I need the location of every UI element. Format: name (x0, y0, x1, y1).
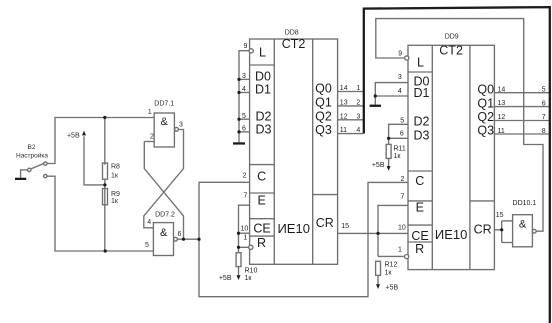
wire DD9 CR output to DD10.1 inputs (494, 229, 501, 231)
svg-text:7: 7 (542, 114, 546, 121)
DD8 CE/R cell line (250, 235, 275, 237)
svg-text:4: 4 (398, 88, 402, 95)
junction node DD7.2 output / cross wire (182, 238, 185, 241)
resistor R10 body (236, 253, 241, 267)
svg-text:3: 3 (242, 73, 246, 80)
svg-text:1к: 1к (111, 173, 119, 180)
junction node DD8 D1 (237, 91, 240, 94)
svg-text:3: 3 (179, 122, 183, 129)
DD8 inner divider right (312, 39, 314, 264)
DD9 Q2 output wire (net 7) (494, 120, 549, 122)
svg-text:D2: D2 (414, 114, 430, 128)
svg-text:CE: CE (253, 221, 270, 235)
svg-text:CR: CR (474, 222, 492, 236)
svg-text:3: 3 (356, 113, 360, 120)
counter DD9 body (408, 45, 494, 269)
DD10.1 output bubble (532, 229, 536, 233)
svg-text:DD8: DD8 (285, 29, 299, 36)
svg-text:В2: В2 (28, 144, 36, 151)
junction node bottom rail / R9 (104, 249, 107, 252)
svg-text:+5В: +5В (67, 132, 80, 139)
svg-text:2: 2 (356, 99, 360, 106)
DD9 R pin wire (378, 255, 404, 257)
svg-text:L: L (417, 55, 424, 69)
svg-text:7: 7 (244, 192, 248, 199)
DD8 D1 pin wire (239, 92, 250, 94)
svg-text:2: 2 (150, 134, 154, 141)
op-amp DD7.1 NAND gate body (154, 113, 174, 147)
switch B2 (Настройка) lever (31, 163, 44, 169)
svg-text:Q2: Q2 (477, 110, 494, 124)
+5V arrowhead down (R12) (376, 284, 380, 289)
DD9 Q0 output wire (net 5) (494, 92, 549, 94)
ground bar DD9 D0/D1 (370, 105, 381, 107)
junction node DD9 D1 ground (374, 94, 377, 97)
svg-text:13: 13 (498, 100, 506, 107)
junction node DD8 D3 (237, 130, 240, 133)
wire R8 to R9 and bottom rail (104, 180, 106, 251)
svg-text:&: & (161, 116, 169, 128)
+5V arrowhead down (R10) (237, 275, 241, 280)
svg-text:D2: D2 (256, 109, 272, 123)
switch B2 pole contact circle (28, 168, 31, 171)
DD9 Q3 output wire (net 8) (494, 133, 549, 135)
svg-text:10: 10 (398, 224, 406, 231)
DD8 L cell line (250, 64, 275, 66)
svg-text:E: E (258, 193, 266, 207)
R11 wire to +5V arrow (388, 158, 390, 167)
svg-text:10: 10 (241, 225, 249, 232)
svg-text:DD7.1: DD7.1 (154, 101, 174, 108)
svg-text:E: E (416, 200, 424, 214)
wire DD7.1 output to DD7.2 pin 4 (cross coupling) (144, 130, 184, 228)
svg-text:14: 14 (340, 85, 348, 92)
junction node DD9 CR / DD10.1 (500, 228, 503, 231)
DD9 D3 pin wire (389, 137, 408, 139)
svg-text:D1: D1 (414, 86, 430, 100)
wire DD8 CR output to DD9 CE input (338, 232, 408, 234)
DD8 inner divider left (273, 39, 275, 264)
svg-text:R9: R9 (111, 191, 120, 198)
DD8 Q/CR cell line (313, 194, 338, 196)
svg-text:15: 15 (496, 212, 504, 219)
switch B2 lower contact circle (44, 174, 47, 177)
svg-text:3: 3 (398, 74, 402, 81)
svg-text:15: 15 (341, 223, 349, 230)
DD7.1 output bubble (175, 127, 179, 131)
svg-text:6: 6 (177, 231, 181, 238)
resistor R12 body (376, 261, 381, 275)
resistor R11 body (386, 144, 391, 158)
wire DD7.2 output to node (177, 238, 199, 240)
DD10.1 input stub upper (502, 220, 513, 222)
junction node top rail / R8 (103, 116, 106, 119)
svg-text:11: 11 (498, 128, 505, 135)
svg-text:5: 5 (400, 118, 404, 125)
resistor R8 body (103, 163, 108, 179)
DD9 C cell top line (408, 170, 432, 172)
DD9 CE/R cell line (408, 241, 432, 243)
wire node around bottom to DD9 C input (199, 182, 408, 296)
svg-text:CE: CE (411, 229, 428, 243)
R10 wire to +5V arrow (238, 267, 240, 277)
wire upper contact to top rail (47, 118, 154, 164)
junction node DD8 R (237, 246, 240, 249)
svg-text:4: 4 (147, 219, 151, 226)
DD9 D0 pin wire (375, 83, 408, 105)
DD9 E pin wire and pull vertical (378, 205, 408, 256)
svg-text:9: 9 (244, 43, 248, 50)
svg-text:Q3: Q3 (477, 124, 494, 138)
DD10.1 input stub lower (502, 242, 513, 244)
svg-text:12: 12 (498, 114, 506, 121)
svg-text:5: 5 (542, 86, 546, 93)
counter DD8 body (250, 39, 338, 264)
svg-text:L: L (259, 46, 266, 60)
wire node to DD8 C input (199, 182, 250, 239)
svg-text:2: 2 (243, 173, 247, 180)
svg-text:ИЕ10: ИЕ10 (277, 221, 309, 236)
DD9 D2 pin wire (389, 124, 408, 144)
DD9 D1 pin wire (375, 95, 408, 97)
svg-text:C: C (415, 174, 424, 188)
svg-text:DD7.2: DD7.2 (155, 212, 175, 219)
resistor R9 body (103, 189, 108, 205)
svg-text:D3: D3 (414, 128, 430, 142)
svg-text:4: 4 (356, 127, 360, 134)
svg-text:5: 5 (145, 242, 149, 249)
wire DD10.1 output to DD9 L input (load loop) (376, 19, 543, 232)
svg-text:7: 7 (401, 194, 405, 201)
svg-text:6: 6 (242, 126, 246, 133)
svg-text:4: 4 (242, 86, 246, 93)
DD8 Q1 output wire (net 2) (338, 105, 363, 107)
svg-text:R: R (257, 236, 266, 250)
svg-text:&: & (160, 227, 168, 239)
DD8 D0 pin wire (239, 78, 250, 80)
svg-text:D1: D1 (255, 82, 271, 96)
svg-text:R12: R12 (385, 262, 398, 269)
thick bus wire from DD8 outputs around top to right edge (364, 7, 550, 323)
svg-text:R10: R10 (245, 268, 258, 275)
svg-text:1: 1 (148, 109, 152, 116)
svg-text:+5В: +5В (386, 285, 399, 292)
svg-text:+5В: +5В (372, 162, 385, 169)
DD9 inner divider left (431, 45, 433, 269)
DD8 C/E cell line (250, 192, 275, 194)
svg-text:CT2: CT2 (282, 37, 306, 51)
svg-text:D0: D0 (255, 69, 271, 83)
wire switch pole to ground (21, 170, 28, 178)
svg-text:5: 5 (242, 113, 246, 120)
svg-text:8: 8 (542, 128, 546, 135)
svg-text:R: R (415, 242, 424, 256)
junction node DD8 CE (237, 232, 240, 235)
ground bar DD8 inputs (233, 142, 245, 144)
svg-text:6: 6 (542, 100, 546, 107)
wire DD7.1 pin 2 to DD7.2 output (cross coupling) (144, 142, 183, 240)
DD8 R pin bubble (249, 245, 253, 249)
DD7.1 pin 2 input wire (144, 141, 154, 143)
junction node DD7.2 output / clock link (197, 238, 200, 241)
DD8 ground bus left (239, 51, 249, 143)
svg-text:6: 6 (400, 131, 404, 138)
junction node DD9 D3 / R11 (387, 137, 390, 140)
ground bar at switch B2 (15, 178, 26, 180)
DD8 C cell top line (250, 164, 275, 166)
svg-text:1: 1 (356, 85, 360, 92)
+5V arrowhead up (R8/R9 node) (82, 131, 86, 136)
svg-text:CT2: CT2 (439, 43, 463, 57)
op-amp DD7.2 NAND gate body (153, 223, 173, 256)
svg-text:13: 13 (340, 99, 348, 106)
svg-text:Q1: Q1 (315, 95, 332, 109)
svg-text:14: 14 (498, 86, 506, 93)
svg-text:DD9: DD9 (445, 34, 459, 41)
svg-text:11: 11 (340, 127, 347, 134)
svg-text:Q1: Q1 (477, 96, 494, 110)
svg-text:1: 1 (243, 235, 247, 242)
DD7.2 output bubble (174, 237, 178, 241)
svg-text:9: 9 (398, 50, 402, 57)
DD8 CE pin wire (239, 232, 250, 234)
DD8 Q3 output wire (net 4) (338, 133, 363, 135)
svg-text:Q0: Q0 (477, 82, 494, 96)
svg-text:1к: 1к (394, 153, 402, 160)
svg-text:ИЕ10: ИЕ10 (435, 227, 467, 242)
DD8 E pin wire and pull-up vertical (239, 205, 250, 253)
svg-text:Q2: Q2 (315, 109, 332, 123)
DD9 R pin bubble (405, 255, 409, 259)
svg-text:R8: R8 (111, 163, 120, 170)
wire +5V arrow no.1 to R8/R9 node (84, 136, 105, 185)
DD10.1 input tie vertical (501, 221, 503, 243)
svg-text:1к: 1к (245, 275, 253, 282)
DD9 Q/CR cell line (470, 200, 495, 202)
DD8 D3 pin wire (239, 131, 250, 133)
DD8 D2 pin wire (239, 118, 250, 120)
DD8 R pin wire (239, 246, 249, 248)
svg-text:CR: CR (316, 216, 334, 230)
svg-text:1к: 1к (111, 198, 119, 205)
DD9 L pin bubble (405, 56, 409, 60)
DD8 Q2 output wire (net 3) (338, 119, 363, 121)
junction node DD8 D2 (237, 118, 240, 121)
DD9 inner divider right (469, 45, 471, 269)
DD9 L cell line (408, 71, 432, 73)
svg-text:12: 12 (340, 113, 348, 120)
svg-text:R11: R11 (394, 145, 406, 152)
svg-text:+5В: +5В (219, 275, 232, 282)
DD9 C/E cell line (408, 200, 432, 202)
+5V arrowhead down (R11) (387, 166, 391, 171)
DD9 Q1 output wire (net 6) (494, 106, 549, 108)
svg-text:&: & (519, 219, 527, 231)
junction node DD8 D0 (237, 78, 240, 81)
switch B2 upper contact circle (44, 162, 47, 165)
DD8 L pin bubble (249, 49, 253, 53)
svg-text:Настройка: Настройка (16, 151, 48, 159)
resistor R8 branch wire top (104, 118, 106, 165)
junction node DD9 CE / R12 (376, 232, 379, 235)
svg-text:1: 1 (398, 246, 402, 253)
DD8 Q0 output wire (net 1) (338, 91, 363, 93)
svg-text:Q0: Q0 (315, 81, 332, 95)
svg-text:Q3: Q3 (315, 123, 332, 137)
junction node +5V / R8-R9 (103, 183, 106, 186)
DD8 E/CE cell line (250, 218, 275, 220)
DD9 E/CE cell line (408, 224, 432, 226)
svg-text:1к: 1к (385, 270, 393, 277)
wire lower contact to bottom rail (47, 176, 153, 251)
svg-text:2: 2 (401, 176, 405, 183)
R12 wire to +5V arrow (377, 275, 379, 285)
svg-text:D3: D3 (256, 122, 272, 136)
op-amp DD10.1 NAND gate body (513, 215, 533, 247)
svg-text:DD10.1: DD10.1 (513, 200, 537, 207)
svg-text:C: C (257, 169, 266, 183)
